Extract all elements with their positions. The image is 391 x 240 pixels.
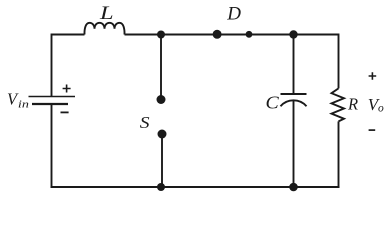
- wire bottom rail: [51, 186, 340, 188]
- battery minus sign: [61, 111, 69, 113]
- resistor R zigzag: [332, 88, 345, 121]
- node: capacitor top rail junction: [289, 30, 297, 38]
- wire left rail lower: [51, 104, 53, 188]
- svg-text:C: C: [266, 93, 280, 113]
- battery Vin top plate: [29, 96, 76, 98]
- svg-text:R: R: [347, 94, 358, 113]
- diode D left terminal dot: [213, 30, 222, 39]
- battery plus sign: [63, 85, 71, 93]
- svg-text:S: S: [140, 113, 150, 132]
- wire top rail left segment: [52, 34, 85, 36]
- minus sign output: [369, 129, 376, 131]
- capacitor C top plate: [281, 93, 307, 95]
- wire right rail lower: [338, 121, 340, 188]
- wire capacitor branch lower: [293, 101, 295, 188]
- diode D right terminal dot: [246, 31, 253, 38]
- wire switch branch lower: [161, 134, 163, 187]
- node: switch top rail junction: [157, 31, 165, 39]
- svg-text:o: o: [378, 103, 384, 115]
- svg-text:D: D: [226, 4, 241, 25]
- inductor L: [84, 23, 124, 35]
- svg-text:in: in: [18, 99, 30, 111]
- wire switch branch upper: [160, 35, 162, 100]
- wire right rail upper: [338, 34, 340, 89]
- switch S upper terminal dot: [157, 95, 166, 104]
- wire left rail upper: [51, 34, 53, 97]
- node: capacitor bottom rail junction: [289, 183, 298, 192]
- switch S lower terminal dot: [158, 130, 167, 139]
- svg-text:L: L: [99, 4, 114, 24]
- capacitor C curved plate: [281, 100, 307, 106]
- plus sign output: [369, 72, 377, 80]
- wire capacitor branch upper: [293, 35, 295, 95]
- wire top rail right segment: [125, 34, 339, 36]
- node: switch bottom rail junction: [157, 183, 165, 191]
- battery Vin bottom plate: [32, 103, 68, 105]
